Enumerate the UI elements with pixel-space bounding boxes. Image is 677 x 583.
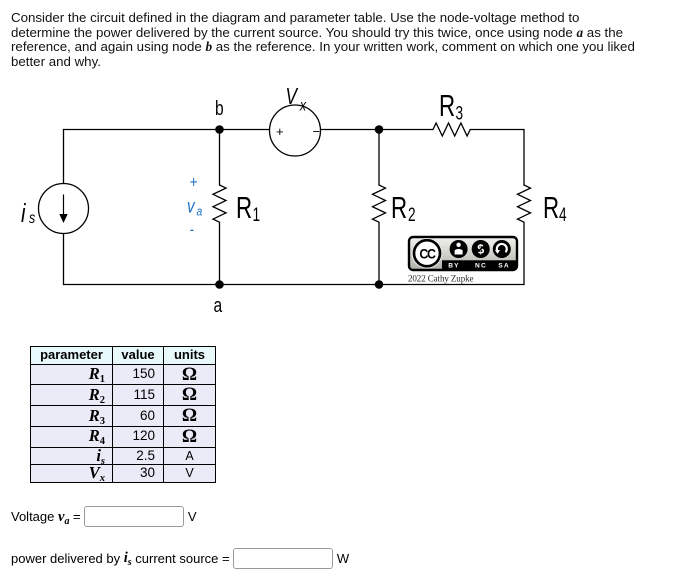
svg-text:b: b: [215, 97, 224, 119]
svg-text:a: a: [213, 294, 222, 316]
answer row 2: power delivered: [11, 549, 349, 570]
CC license badge: [409, 237, 517, 270]
resistor R1: [213, 130, 226, 285]
svg-text:R: R: [236, 190, 252, 224]
label R1: [236, 190, 260, 225]
wire: voltage source to middle node: [321, 129, 380, 131]
label R2: [391, 190, 416, 225]
current source i_s: [39, 184, 89, 234]
label R4: [543, 190, 567, 225]
svg-text:2: 2: [408, 204, 416, 226]
svg-text:v: v: [187, 195, 196, 217]
svg-text:+: +: [190, 173, 198, 192]
node: bottom middle junction: [375, 280, 384, 289]
node b: [215, 125, 224, 134]
wire: R3 to right rail: [470, 129, 524, 131]
svg-text:+: +: [276, 124, 284, 139]
resistor R3: [433, 123, 470, 136]
resistor R4: [518, 185, 531, 285]
label a: [213, 294, 222, 316]
voltage source Vx: [270, 105, 321, 156]
credit: 2022 Cathy Zupke: [408, 274, 473, 284]
wire: left rail upper: [63, 130, 65, 184]
svg-text:a: a: [197, 204, 203, 218]
svg-text:−: −: [313, 124, 321, 139]
svg-text:CC: CC: [419, 246, 436, 262]
answer row 1: voltage v_a: [11, 507, 197, 528]
wire: top left horizontal (node b run): [64, 129, 220, 131]
wire: left rail lower: [63, 234, 65, 285]
svg-text:SA: SA: [498, 263, 510, 270]
label R3: [439, 88, 463, 124]
label i_s: [21, 199, 35, 228]
circuit schematic svg: [0, 0, 677, 340]
node a: [215, 280, 224, 289]
svg-text:1: 1: [253, 204, 261, 226]
SA icon: [493, 240, 511, 258]
svg-text:V: V: [286, 85, 300, 110]
svg-text:2022 Cathy Zupke: 2022 Cathy Zupke: [408, 274, 473, 284]
svg-text:R: R: [543, 190, 559, 224]
wire: node b to voltage source: [220, 129, 270, 131]
svg-text:3: 3: [456, 102, 464, 124]
NC icon: [472, 240, 490, 258]
svg-text:R: R: [439, 88, 455, 122]
label + v_a - (blue polarity of R1): [187, 173, 203, 239]
label Vx: [286, 85, 307, 114]
wire: middle node to R3: [379, 129, 433, 131]
wire: bottom rail: [64, 284, 525, 286]
svg-text:i: i: [21, 199, 26, 228]
svg-text:-: -: [190, 221, 195, 240]
resistor R2: [373, 130, 386, 285]
label b: [215, 97, 224, 119]
svg-text:x: x: [299, 96, 307, 114]
parameter table: [30, 346, 216, 483]
BY icon: [450, 240, 468, 258]
svg-text:R: R: [391, 190, 407, 224]
problem statement paragraph: [11, 11, 676, 69]
svg-text:BY: BY: [448, 263, 460, 270]
svg-text:s: s: [29, 210, 35, 228]
wire: right rail upper: [523, 130, 525, 186]
node: top middle junction: [375, 125, 384, 134]
svg-text:4: 4: [559, 204, 567, 226]
svg-text:NC: NC: [475, 263, 487, 270]
